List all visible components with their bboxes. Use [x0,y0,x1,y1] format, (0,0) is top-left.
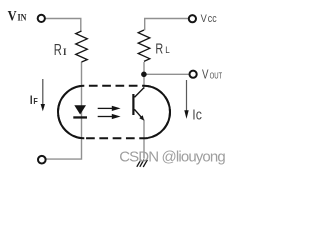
svg-text:V: V [201,14,207,26]
svg-text:CSDN @liouyong: CSDN @liouyong [119,149,226,166]
svg-text:V: V [8,8,17,24]
svg-text:F: F [33,97,38,107]
svg-text:I: I [30,95,33,108]
svg-text:cc: cc [208,13,217,25]
svg-text:R: R [54,41,62,58]
svg-text:L: L [165,45,170,56]
svg-text:I: I [63,48,67,58]
svg-text:OUT: OUT [210,72,223,81]
svg-text:R: R [155,40,163,57]
svg-text:IN: IN [18,12,28,23]
svg-text:Ic: Ic [192,106,202,122]
svg-text:V: V [202,69,209,82]
